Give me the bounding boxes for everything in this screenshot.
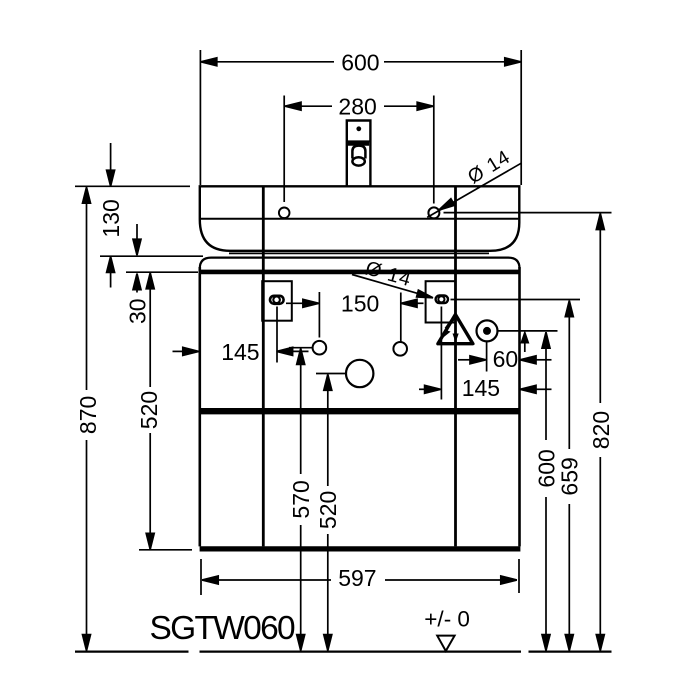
svg-text:145: 145 — [221, 339, 259, 365]
tap hole right Ø14 — [428, 207, 439, 218]
tick 145 right — [440, 307, 442, 400]
knob hole left — [313, 341, 327, 355]
svg-text:597: 597 — [338, 565, 376, 591]
dimension 130 — [107, 143, 115, 288]
cabinet middle band — [201, 408, 520, 414]
svg-text:570: 570 — [288, 480, 314, 518]
svg-text:280: 280 — [338, 94, 376, 120]
handle hole large — [346, 360, 373, 387]
hinge slot left — [270, 296, 284, 304]
dimension 520 right — [324, 374, 332, 650]
warning triangle — [438, 315, 473, 344]
tap hole left — [279, 208, 290, 219]
leader Ø14 tap hole — [427, 163, 521, 217]
cabinet top thick edge — [201, 270, 519, 275]
dimension 60 — [458, 356, 552, 364]
dimension 659 — [565, 301, 573, 651]
extension line 597 right — [518, 559, 520, 593]
extension line sink top left — [75, 185, 190, 187]
knob hole right — [393, 342, 407, 356]
svg-text:130: 130 — [98, 199, 124, 237]
dimension 600 right — [542, 332, 550, 650]
arrow at cabinet edge 600 level — [521, 333, 528, 352]
svg-text:SGTW060: SGTW060 — [150, 610, 296, 647]
svg-text:150: 150 — [341, 291, 379, 317]
reference line knob height — [289, 347, 312, 349]
extension line 600 left — [199, 50, 201, 185]
dimension 870 — [83, 187, 91, 650]
faucet lever — [352, 146, 365, 166]
extension line 280 right — [433, 96, 435, 204]
extension line 597 left — [200, 559, 202, 595]
extension line cabinet bottom left — [139, 549, 192, 551]
svg-text:+/- 0: +/- 0 — [424, 607, 470, 632]
dimension 600 top — [201, 58, 521, 66]
svg-text:659: 659 — [557, 457, 583, 495]
leader Ø14 hinge hole — [352, 275, 433, 298]
svg-text:60: 60 — [493, 346, 519, 372]
reference line tap hole height — [444, 212, 612, 214]
cabinet body outline — [200, 258, 520, 547]
svg-text:520: 520 — [136, 391, 162, 429]
dimension 820 — [596, 214, 604, 651]
tick 150 right — [400, 293, 402, 342]
dimension 280 — [285, 102, 433, 110]
extension line cabinet top edge left — [126, 271, 198, 273]
svg-text:520: 520 — [315, 491, 341, 529]
cabinet bottom thick edge — [200, 546, 521, 551]
hinge plate left — [262, 281, 292, 321]
hinge slot right — [436, 296, 448, 304]
svg-text:145: 145 — [462, 375, 500, 401]
washbasin shadow line — [229, 252, 489, 254]
datum triangle +/-0 — [437, 636, 454, 651]
tick 145 left — [276, 307, 278, 363]
svg-text:820: 820 — [588, 411, 614, 449]
washbasin deck front edge — [201, 218, 519, 220]
dimension 520 left — [146, 273, 154, 550]
extension line 280 left — [283, 96, 285, 203]
svg-text:870: 870 — [75, 396, 101, 434]
reference line outlet height — [498, 330, 558, 332]
basin side line right — [454, 187, 457, 546]
washbasin outline — [200, 186, 520, 251]
dimension 145 left — [173, 347, 309, 355]
tick 60 — [486, 342, 488, 372]
faucet cartridge dot — [356, 126, 361, 131]
extension line cabinet top outline left — [100, 255, 203, 257]
reference line hinge height — [451, 299, 581, 301]
tick 150 left — [318, 292, 320, 338]
svg-text:600: 600 — [341, 49, 379, 75]
dimension 150 — [286, 299, 424, 307]
extension line 600 right — [520, 50, 522, 185]
outlet symbol circled dot — [477, 320, 498, 341]
basin side line left — [262, 187, 265, 546]
dimension 30 — [133, 224, 141, 293]
reference line handle height — [316, 373, 346, 375]
faucet body — [347, 121, 371, 187]
hinge plate right — [426, 281, 456, 322]
dimension 597 — [202, 576, 517, 584]
svg-text:30: 30 — [124, 298, 150, 324]
floor baseline — [75, 650, 612, 652]
dimension 145 right — [419, 385, 552, 393]
dimension 570 — [297, 348, 305, 650]
